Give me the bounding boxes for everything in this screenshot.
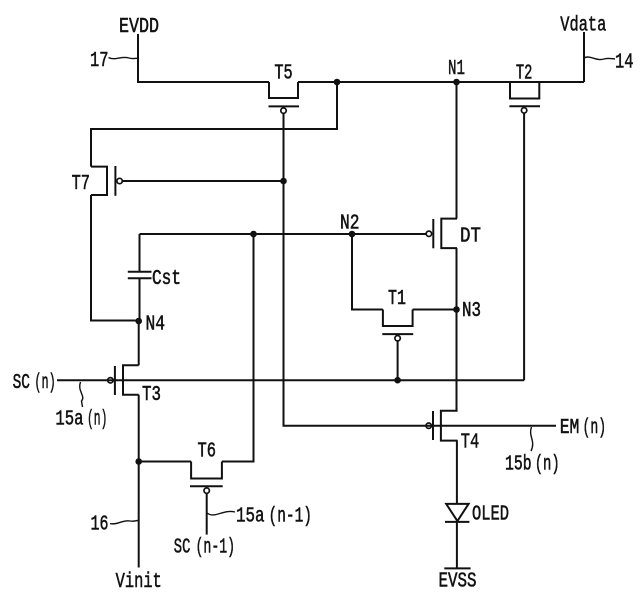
capacitor Cst bbox=[128, 234, 181, 321]
svg-text:(n): (n) bbox=[583, 417, 607, 440]
leader squiggle 14 bbox=[584, 57, 615, 60]
node N2 bbox=[349, 231, 356, 238]
svg-text:15b: 15b bbox=[505, 454, 532, 477]
svg-text:T2: T2 bbox=[516, 62, 533, 85]
diode OLED bbox=[445, 504, 509, 527]
svg-text:T7: T7 bbox=[72, 173, 90, 196]
svg-text:EVDD: EVDD bbox=[119, 16, 159, 39]
ground EVSS bbox=[439, 568, 477, 593]
svg-text:EVSS: EVSS bbox=[439, 571, 477, 594]
svg-text:14: 14 bbox=[615, 52, 634, 75]
svg-text:N4: N4 bbox=[146, 314, 166, 337]
svg-text:T4: T4 bbox=[461, 432, 480, 455]
wire EVDD lead bbox=[138, 34, 269, 82]
wire N2 down to T1 rail bbox=[352, 234, 383, 310]
wire N2 rail (Cst top to DT gate) bbox=[140, 233, 427, 235]
svg-text:(n): (n) bbox=[87, 408, 107, 431]
wire T7 source down to N4 bbox=[91, 195, 139, 321]
svg-text:17: 17 bbox=[90, 50, 109, 73]
transistor T1 bbox=[382, 288, 413, 341]
wire Vdata lead bbox=[583, 32, 585, 82]
transistor T7 bbox=[72, 166, 123, 196]
svg-text:N1: N1 bbox=[448, 58, 465, 81]
node junction dot at (337,82) bbox=[334, 79, 341, 86]
wire T1 drain to N3 bbox=[413, 309, 457, 311]
node junction dot T1 gate on SC(n) bbox=[394, 377, 401, 384]
svg-text:(n): (n) bbox=[535, 454, 560, 477]
transistor T6 bbox=[190, 441, 223, 494]
leader squiggle 15a(n-1) bbox=[207, 511, 235, 515]
node junction dot at (253.5,234) bbox=[250, 231, 257, 238]
svg-text:N3: N3 bbox=[462, 300, 481, 323]
svg-text:Cst: Cst bbox=[152, 268, 181, 291]
svg-text:SC: SC bbox=[13, 372, 30, 395]
wire T1 gate down to SC(n) bbox=[397, 341, 399, 381]
svg-text:EM: EM bbox=[560, 417, 580, 440]
svg-text:(n-1): (n-1) bbox=[269, 506, 313, 529]
node junction dot T7 gate / T5 gate bbox=[280, 178, 287, 185]
wire DT to T4 bbox=[456, 248, 458, 411]
leader squiggle 15a(n) bbox=[80, 382, 83, 407]
wire rail2 from junction down and left to T7 bbox=[91, 82, 337, 167]
svg-text:DT: DT bbox=[460, 226, 481, 249]
wire T6 drain up to N2 rail bbox=[222, 234, 254, 462]
transistor T5 bbox=[269, 62, 300, 113]
svg-text:15a: 15a bbox=[55, 408, 83, 431]
wire SC(n) rail bbox=[57, 379, 524, 381]
svg-text:T3: T3 bbox=[142, 384, 161, 407]
transistor T3 bbox=[108, 365, 161, 407]
wire T4 down to OLED bbox=[456, 441, 458, 504]
leader squiggle 16 bbox=[110, 520, 138, 523]
wire top rail T5 to Vdata bbox=[298, 81, 584, 83]
svg-text:N2: N2 bbox=[340, 213, 360, 236]
svg-text:OLED: OLED bbox=[472, 504, 509, 527]
svg-text:T1: T1 bbox=[388, 288, 406, 311]
wire OLED to EVSS bbox=[456, 522, 458, 568]
node N3 bbox=[453, 306, 460, 313]
node junction dot T3/T6/Vinit bbox=[135, 458, 142, 465]
wire N4 to T3 bbox=[138, 321, 140, 365]
node N1 bbox=[453, 79, 460, 86]
wire main right vertical N1 to DT bbox=[456, 82, 458, 219]
svg-text:16: 16 bbox=[91, 514, 109, 537]
transistor DT bbox=[426, 219, 481, 249]
leader squiggle 17 bbox=[109, 57, 139, 58]
svg-text:15a: 15a bbox=[236, 506, 265, 529]
svg-text:T5: T5 bbox=[274, 62, 292, 85]
node N4 bbox=[135, 318, 142, 325]
svg-text:SC: SC bbox=[174, 536, 191, 559]
transistor T2 bbox=[509, 62, 540, 113]
wire T3 down to Vinit bbox=[138, 395, 140, 568]
wire T2 gate down to SC(n) bbox=[523, 113, 525, 380]
wire T7 gate to T5-gate vertical bbox=[122, 180, 283, 182]
svg-text:(n-1): (n-1) bbox=[196, 536, 236, 559]
svg-text:(n): (n) bbox=[34, 372, 55, 395]
transistor T4 bbox=[426, 411, 479, 455]
wire T6 rail bbox=[139, 461, 191, 463]
svg-text:T6: T6 bbox=[198, 441, 217, 464]
wire T5 gate down to EM line and EM(n) rail bbox=[284, 113, 557, 426]
svg-text:Vdata: Vdata bbox=[560, 15, 606, 38]
svg-text:Vinit: Vinit bbox=[116, 571, 162, 594]
leader squiggle 15b(n) bbox=[531, 427, 533, 451]
wire T6 gate lead bbox=[206, 493, 208, 534]
